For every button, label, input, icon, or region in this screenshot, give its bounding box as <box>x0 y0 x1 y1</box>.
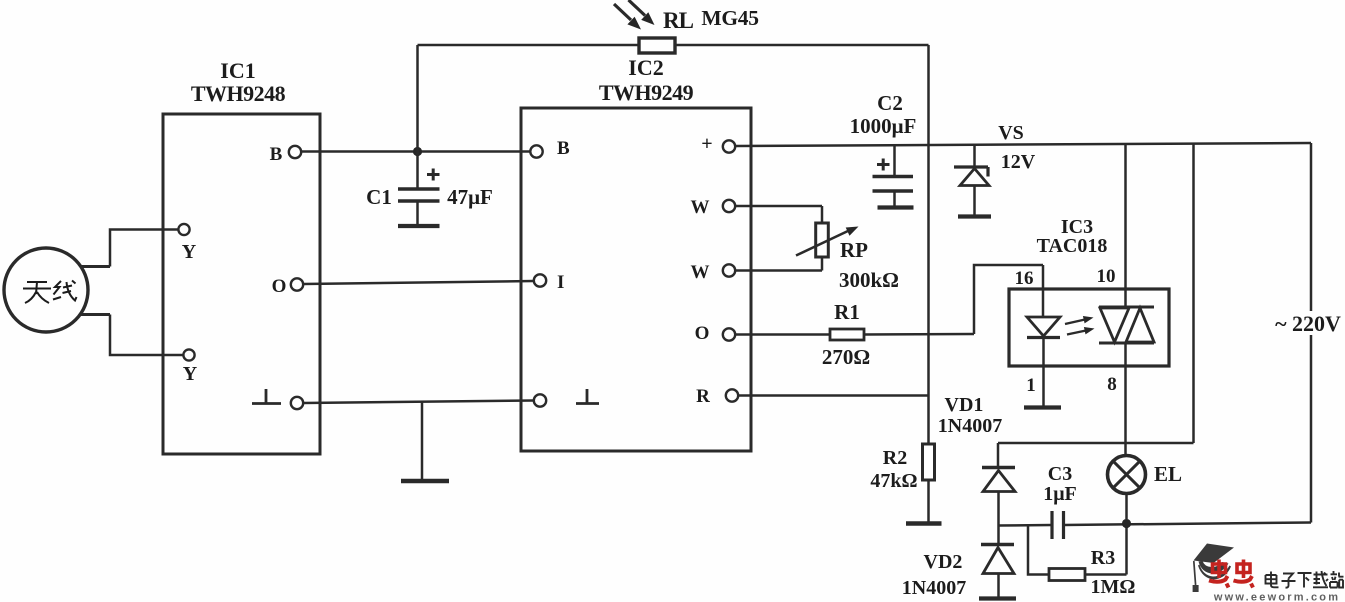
IC2 ground symbol <box>576 389 599 404</box>
svg-text:www.eeworm.com: www.eeworm.com <box>1213 592 1340 602</box>
svg-text:300kΩ: 300kΩ <box>839 268 899 292</box>
capacitor C2 <box>873 145 914 207</box>
resistor R2 body <box>923 444 935 480</box>
node junction lamp bottom <box>1122 519 1131 528</box>
wire R2 to ground <box>927 480 930 522</box>
svg-text:TWH9249: TWH9249 <box>599 80 694 105</box>
svg-text:C1: C1 <box>366 185 392 209</box>
diode VD1 1N4007 <box>982 443 1015 544</box>
ground bar <box>401 479 449 483</box>
node junction on B net <box>413 147 422 156</box>
svg-text:8: 8 <box>1107 374 1117 395</box>
IC2 pin I circle <box>534 274 546 286</box>
wire antenna top lead <box>110 230 178 267</box>
svg-text:~ 220V: ~ 220V <box>1275 311 1341 336</box>
svg-text:R1: R1 <box>834 300 860 324</box>
wire RL top net <box>418 44 929 47</box>
svg-text:IC1: IC1 <box>220 58 255 83</box>
IC2 pin + circle <box>723 140 735 152</box>
IC2 box TWH9249 <box>521 108 751 451</box>
RP arrow <box>796 227 859 256</box>
capacitor C3 <box>1052 511 1064 539</box>
wire vertical divider net (RL to R pin to R2) <box>927 45 930 444</box>
triac inside IC3 <box>1099 307 1154 343</box>
svg-text:VD2: VD2 <box>924 551 963 573</box>
wire O to IC3 pin16 <box>974 265 1043 334</box>
svg-text:O: O <box>695 323 710 344</box>
svg-text:I: I <box>557 272 564 293</box>
svg-text:47kΩ: 47kΩ <box>870 470 917 492</box>
svg-text:EL: EL <box>1154 462 1182 486</box>
svg-text:R2: R2 <box>883 447 907 469</box>
svg-text:VD1: VD1 <box>945 394 984 416</box>
svg-text:TAC018: TAC018 <box>1037 235 1108 257</box>
wire 220V right vertical <box>1310 143 1313 523</box>
wire R3 branch <box>1028 525 1127 574</box>
IC2 pin GND circle <box>534 394 546 406</box>
wire vertical from B junction up to RL wire <box>416 45 419 152</box>
svg-text:R: R <box>696 386 710 407</box>
resistor R1 body <box>830 329 864 340</box>
svg-text:Y: Y <box>182 241 197 263</box>
svg-text:IC2: IC2 <box>628 55 663 80</box>
light arrow 1 <box>614 4 641 30</box>
C2 polarity + <box>877 159 890 171</box>
svg-text:Y: Y <box>183 363 198 385</box>
svg-text:1N4007: 1N4007 <box>902 577 966 599</box>
ground bar R2 <box>906 521 942 525</box>
watermark graduation cap <box>1193 544 1234 593</box>
svg-text:C2: C2 <box>877 91 903 115</box>
svg-text:10: 10 <box>1097 266 1116 287</box>
diode VD2 1N4007 <box>979 545 1016 599</box>
C1 polarity + <box>427 169 440 181</box>
svg-text:+: + <box>701 133 712 155</box>
svg-text:MG45: MG45 <box>701 6 758 30</box>
svg-text:B: B <box>557 138 570 159</box>
svg-text:C3: C3 <box>1048 463 1072 485</box>
IC1 ground symbol <box>252 389 281 404</box>
potentiometer RP body <box>816 223 829 257</box>
IC1 box TWH9248 <box>163 114 320 454</box>
svg-text:1MΩ: 1MΩ <box>1091 576 1136 598</box>
resistor RL body MG45 <box>639 38 675 53</box>
wire bottom net left of C3 <box>999 524 1053 527</box>
resistor R3 body <box>1049 569 1085 581</box>
wire ground drop <box>421 402 424 480</box>
svg-text:B: B <box>270 144 283 165</box>
IC2 pin R circle <box>726 389 738 401</box>
resistor R1 wires <box>735 333 974 336</box>
IC1 pin B circle <box>289 146 301 158</box>
potentiometer RP wires <box>735 206 822 271</box>
opto LED inside IC3 <box>1027 317 1060 338</box>
wire B net: IC1 B to IC2 B <box>301 150 530 153</box>
pin Y bottom circle <box>183 349 194 360</box>
svg-text:12V: 12V <box>1001 151 1036 173</box>
IC2 pin O circle <box>723 328 735 340</box>
wire R pin to divider <box>738 394 928 397</box>
svg-text:47μF: 47μF <box>447 185 493 209</box>
zener diode VS 12V <box>954 145 991 217</box>
coupling arrow 2 <box>1067 327 1095 335</box>
svg-text:1N4007: 1N4007 <box>938 415 1002 437</box>
svg-text:16: 16 <box>1015 268 1034 289</box>
svg-text:O: O <box>272 276 287 297</box>
wire triac pin8 down to lamp <box>1124 343 1127 456</box>
wire VS rail <box>735 143 1311 146</box>
antenna label 天线 <box>23 281 77 304</box>
svg-text:270Ω: 270Ω <box>822 345 870 369</box>
wire VD1 top net <box>998 442 1194 445</box>
svg-text:RL: RL <box>663 8 694 33</box>
svg-text:VS: VS <box>998 122 1024 144</box>
wire rail to triac pin10 <box>1124 144 1127 307</box>
svg-text:W: W <box>691 262 710 283</box>
wire ground net IC1-IC2 <box>303 401 534 404</box>
wire antenna bottom lead <box>110 315 183 356</box>
IC2 pin B circle <box>530 145 542 157</box>
IC1 pin O circle <box>291 278 303 290</box>
antenna <box>4 248 110 332</box>
pin Y top circle <box>178 224 189 235</box>
wire rail down to VD1 net <box>1192 143 1195 443</box>
light arrow 2 <box>629 0 655 25</box>
watermark 虫虫 red characters <box>1209 560 1253 588</box>
IC2 pin W1 circle <box>723 200 735 212</box>
lamp EL <box>1108 456 1146 520</box>
svg-text:RP: RP <box>840 238 868 262</box>
svg-text:1000μF: 1000μF <box>850 114 917 138</box>
svg-text:R3: R3 <box>1091 547 1115 569</box>
IC2 pin W2 circle <box>723 264 735 276</box>
ground bar pin1 <box>1024 405 1061 409</box>
IC3 box TAC018 <box>1009 289 1169 366</box>
wire LED cathode to ground <box>1042 338 1045 407</box>
svg-text:W: W <box>691 197 710 218</box>
watermark 电子下载站 <box>1266 571 1344 588</box>
IC1 pin GND circle <box>291 397 303 409</box>
coupling arrow 1 <box>1065 316 1094 324</box>
svg-text:1: 1 <box>1026 375 1036 396</box>
wire O-I: IC1 O to IC2 I <box>303 281 534 284</box>
svg-text:TWH9248: TWH9248 <box>191 81 286 106</box>
svg-text:1μF: 1μF <box>1043 483 1077 505</box>
capacitor C1 <box>398 152 440 227</box>
wire bottom net right of C3 <box>1064 523 1312 526</box>
